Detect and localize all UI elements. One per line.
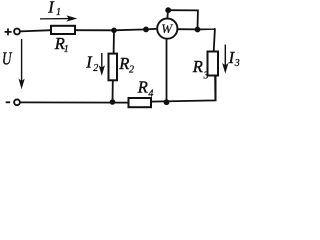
- wire voltage-coil loop: [168, 10, 198, 29]
- svg-text:I: I: [47, 0, 55, 17]
- node D (junction dot right of wattmeter): [195, 27, 201, 33]
- node C (wattmeter top dot): [165, 7, 171, 13]
- wire R1 to node A: [75, 29, 114, 31]
- svg-text:R: R: [192, 57, 203, 76]
- node A (junction dot, R2 branch): [111, 28, 117, 34]
- terminal - (open circle): [14, 99, 20, 105]
- bottom wire from - terminal to R4: [20, 101, 128, 103]
- terminal + (open circle): [14, 29, 20, 35]
- svg-text:3: 3: [203, 71, 209, 82]
- wire R3 bottom to bottom wire: [214, 76, 216, 101]
- current arrow I2: [99, 53, 105, 76]
- node F (junction dot, wattmeter bottom): [164, 99, 170, 105]
- svg-text:3: 3: [234, 58, 240, 69]
- svg-text:R: R: [137, 78, 148, 97]
- current arrow I3: [222, 45, 228, 74]
- wire node B to wattmeter: [146, 28, 156, 31]
- svg-text:W: W: [161, 21, 173, 36]
- resistor R1: [51, 26, 75, 34]
- resistor R2: [109, 54, 118, 81]
- node E (junction dot, R2 branch bottom): [110, 99, 116, 105]
- wire node D to top right corner: [198, 29, 216, 52]
- wire wattmeter right to node D: [178, 28, 198, 30]
- svg-text:R: R: [118, 54, 129, 73]
- node B (dot before wattmeter): [143, 27, 149, 33]
- wire R2 bottom to node E: [112, 80, 114, 102]
- svg-text:4: 4: [148, 89, 153, 100]
- current arrow I1: [40, 15, 77, 21]
- wattmeter top stub: [166, 10, 169, 18]
- wire R4 to bottom right corner: [151, 76, 216, 102]
- wire R2 branch from node A: [113, 30, 115, 53]
- svg-text:U: U: [2, 49, 12, 69]
- svg-text:2: 2: [93, 63, 98, 74]
- wire from + terminal to R1: [20, 30, 51, 31]
- wire node A to node B: [114, 28, 146, 31]
- wattmeter bottom stub to node F: [166, 40, 168, 103]
- resistor R4: [129, 98, 152, 107]
- svg-text:2: 2: [129, 65, 134, 76]
- svg-text:1: 1: [64, 44, 69, 55]
- wattmeter W: [157, 19, 177, 39]
- svg-text:I: I: [85, 52, 93, 71]
- svg-text:1: 1: [56, 7, 61, 18]
- voltage arrow U: [19, 39, 25, 89]
- plus sign of source terminal: [5, 28, 12, 35]
- minus sign of source terminal: [6, 101, 11, 103]
- resistor R3: [208, 52, 219, 76]
